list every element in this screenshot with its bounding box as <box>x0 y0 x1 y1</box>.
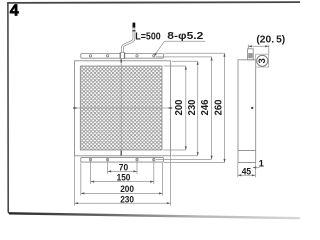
centerline tick top <box>120 59 122 62</box>
dim line 70 <box>108 170 137 172</box>
bottom mounting strip <box>81 157 164 162</box>
centerline tick bottom <box>120 151 122 156</box>
ext line panel left bottom <box>74 156 76 205</box>
cable ferrule line <box>132 30 135 32</box>
centerline tick right <box>169 107 173 109</box>
leader diagonal to hole <box>155 41 165 55</box>
cable outline <box>122 28 133 53</box>
ext line panel right bottom <box>169 156 171 205</box>
top mounting strip <box>81 54 164 59</box>
leader arrowhead <box>154 53 157 56</box>
leader shelf for 8-phi5.2 <box>165 40 206 42</box>
top hole 2 <box>106 55 108 57</box>
svg-text:3: 3 <box>257 58 268 63</box>
svg-text:(20. 5): (20. 5) <box>256 34 285 45</box>
svg-text:8-φ5.2: 8-φ5.2 <box>167 30 203 42</box>
svg-text:230: 230 <box>120 194 134 205</box>
top hole 1 <box>89 55 91 57</box>
side view plate dark block <box>248 53 253 58</box>
ext line 45 left <box>237 163 239 177</box>
bottom hole 2 <box>106 158 108 160</box>
right dim 246 bracket <box>156 57 212 159</box>
ext line strip left bottom <box>80 163 82 196</box>
leader for 1 <box>253 167 260 169</box>
side view rivet dot <box>251 107 253 109</box>
side view connector ellipse <box>257 55 268 66</box>
right dim 260 bracket <box>164 53 225 162</box>
dim line 200 <box>81 192 163 194</box>
side view flange plate <box>248 49 254 60</box>
dim line 230 <box>75 202 171 204</box>
cable gland body <box>120 53 125 59</box>
ext line 20.5 left <box>247 45 249 50</box>
cable gland left jaw <box>120 53 121 59</box>
cable gland right jaw <box>124 53 125 59</box>
ext line 20.5 right <box>268 45 270 55</box>
mesh centerline horizontal <box>75 107 171 109</box>
ext line hole3 bottom <box>136 158 138 174</box>
svg-text:4: 4 <box>10 3 19 20</box>
mesh centerline vertical <box>120 61 122 156</box>
side view connector rect <box>256 54 269 67</box>
svg-text:200: 200 <box>174 99 185 115</box>
ext line 45 right <box>254 163 256 177</box>
side view body <box>238 60 256 163</box>
bottom hole 4 <box>153 158 155 160</box>
dim line 45 <box>238 174 256 176</box>
svg-text:1: 1 <box>259 159 265 170</box>
svg-text:230: 230 <box>187 99 198 115</box>
right dim 230 bracket <box>172 61 198 156</box>
cable tip <box>133 23 136 28</box>
bottom hole 1 <box>89 158 91 160</box>
mesh area <box>80 66 162 150</box>
side view internal line <box>238 149 256 151</box>
centerline tick left <box>73 107 77 109</box>
svg-text:150: 150 <box>117 173 131 184</box>
ext line hole4 bottom <box>153 158 155 185</box>
dim line 20.5 <box>248 45 268 47</box>
panel outer rect <box>75 61 171 156</box>
frame bottom border <box>9 213 300 218</box>
top hole 4 <box>153 55 155 57</box>
bottom hole 3 <box>136 158 138 160</box>
svg-text:45: 45 <box>242 166 252 177</box>
ext line hole2 bottom <box>107 158 109 174</box>
ext line hole1 bottom <box>90 158 92 185</box>
svg-text:246: 246 <box>200 99 211 115</box>
frame left border <box>8 3 11 214</box>
cable core <box>122 28 133 53</box>
ext line strip right bottom <box>162 163 164 196</box>
svg-text:260: 260 <box>213 99 224 115</box>
dim line 150 <box>91 181 154 183</box>
right dim 200 bracket <box>164 66 186 150</box>
frame top border <box>7 1 300 4</box>
svg-text:L=500: L=500 <box>135 30 161 42</box>
top hole 3 <box>136 55 138 57</box>
